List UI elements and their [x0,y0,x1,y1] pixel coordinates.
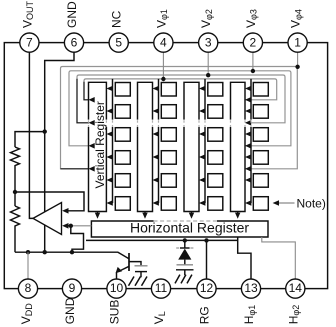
svg-text:Note): Note) [297,196,326,210]
node pin4/bus [161,77,165,81]
pin 10 [107,279,126,298]
svg-text:2: 2 [250,35,257,49]
wire pin6 (GND) down left rail [45,52,74,252]
pin 5 [109,33,128,52]
pin stub wires to buses (gray) with junction dots [163,52,297,79]
svg-text:3: 3 [205,35,212,49]
wire emitter to pin10 [116,273,118,279]
pin 4 [154,33,173,52]
wire diode cathode [184,240,186,248]
chip outline [4,43,327,289]
svg-text:Hφ2: Hφ2 [286,305,301,325]
node VDD on rail [26,250,30,254]
node GND on rail [43,250,47,254]
photosites column 3 [208,83,223,97]
wire pin13 (Hphi1) to HR [238,237,251,279]
wire column 2 clock [158,79,160,203]
wire pin1->bus [297,52,299,66]
node GND tap [43,129,47,133]
photosites column 2 [161,83,176,97]
svg-text:Vφ1: Vφ1 [154,9,169,28]
node pin12 top [204,238,208,242]
arrow note [273,200,279,206]
bus Vphi3 [69,71,291,146]
svg-text:VDD: VDD [19,303,34,325]
arrow bus->VR1 gap3 [89,143,95,149]
diode D1 cathode bar [180,247,190,249]
wire column 3 clock [204,79,206,203]
transistor Q1 emitter [121,266,130,270]
pin 3 [199,33,218,52]
pin 7 [20,33,39,52]
wire pin3->bus [207,52,209,75]
wire amp bottom input segment [68,225,71,227]
svg-text:9: 9 [69,281,76,295]
resistor R2 [11,206,20,230]
transistor Q1 base bar [128,253,130,271]
photosites column 4 [253,83,268,97]
svg-text:14: 14 [289,281,303,295]
svg-text:5: 5 [115,35,122,49]
wire resistor chain top tap [15,132,45,147]
op-amp U1 output amplifier [33,203,62,235]
wire pin2->bus [252,52,254,71]
bus Vphi1 [84,79,277,100]
svg-text:Vφ2: Vφ2 [199,9,214,28]
rail to substrate transistor [15,252,129,259]
node jog on rail [70,250,74,254]
svg-text:VL: VL [152,311,167,324]
diode D1 body [178,249,191,260]
arrow bus->VR1 gap2 [89,120,95,126]
continuation dashes (gray) in break band [89,120,252,126]
svg-text:10: 10 [110,281,124,295]
svg-text:6: 6 [71,35,78,49]
wire R1 to R2 [14,169,16,206]
vertical register VR2 [138,82,153,119]
node pin1/bus [295,65,299,69]
vertical register VR3 [184,82,199,119]
node pin3/bus [206,73,210,77]
svg-text:Horizontal Register: Horizontal Register [130,219,249,235]
bus arrowheads into VR1 (left) and VR4 (right) [89,97,252,172]
ground near RG [175,275,192,284]
arrow into amp bottom input [62,223,68,229]
pin 12 [197,279,216,298]
capacitor C1 plate (gray) [135,265,148,267]
pin 13 [241,279,260,298]
svg-text:VOUT: VOUT [20,0,35,28]
arrow bus->VR4 gap4 [245,166,251,172]
capacitor C1 plate (black) [135,271,147,273]
wire note pointer [276,202,295,204]
pin 8 [18,279,37,298]
wire Q1 collector [129,262,141,266]
black portions of bus hook wires (left side) [61,79,90,169]
wire pin14 (Hphi2) to HR (gray) [262,237,296,279]
capacitor C2 plate (black) [176,269,194,271]
arrowhead Q1 emitter [116,267,123,273]
arrow bus->VR4 gap1 [245,97,251,103]
rail lower right [86,239,238,241]
wire column 4 clock [250,79,252,203]
wire pin4->bus [162,52,164,79]
horizontal register box [91,221,268,237]
pin 9 [62,279,81,298]
pin 11 [151,279,170,298]
bus Vphi4 (outermost) [61,67,298,169]
svg-text:Vertical Register: Vertical Register [93,101,107,188]
svg-text:7: 7 [26,35,33,49]
ground near SUB [129,277,148,286]
wire C2 to ground [184,270,186,275]
wire R2 down to rail [14,230,16,252]
vertical register VR1 (labelled) [89,82,107,119]
svg-text:12: 12 [200,281,214,295]
svg-text:8: 8 [25,281,32,295]
arrow into amp top input [62,208,68,214]
svg-text:SUB: SUB [108,300,122,325]
resistor R1 [11,147,20,169]
register output arrows into horizontal register [95,212,241,219]
node pin2/bus [251,69,255,73]
node resistor chain / amp loop [13,190,17,194]
pin 6 [64,33,83,52]
wire amp bottom input jog to rail [71,226,84,252]
svg-text:11: 11 [155,281,168,295]
pin 2 [243,33,262,52]
arrow bus->VR4 gap2 [245,120,251,126]
svg-text:Hφ1: Hφ1 [242,305,257,325]
svg-text:GND: GND [63,297,77,324]
arrow bus->VR4 gap3 [245,143,251,149]
arrow bus->VR1 gap1 [89,97,95,103]
wire amp top input loop [15,192,84,211]
svg-text:4: 4 [160,35,167,49]
svg-text:13: 13 [244,281,258,295]
transfer arrows into registers (row centers) [106,86,251,206]
arrow bus->VR1 gap4 [89,166,95,172]
wire pin12 (RG) up to rail [206,240,208,279]
svg-text:GND: GND [65,1,79,28]
wire HR output to amp (gray) [71,225,92,227]
wire column 1 clock [112,79,114,203]
node diode top [183,238,187,242]
wire diode anode [184,260,186,265]
svg-text:Vφ3: Vφ3 [244,9,259,28]
wire pin7 (VOUT) down to amp output [29,52,33,218]
wire C1 to ground [140,272,142,278]
svg-text:1: 1 [294,35,301,49]
capacitor C2 plate (gray) [177,264,194,266]
pin 1 [288,33,307,52]
bus Vphi2 [77,75,285,123]
node amp input / HR output [69,224,73,228]
photosites column 1 [115,83,130,97]
wire pin8 (VDD) to rail (gray) [27,252,29,279]
svg-text:RG: RG [198,306,212,324]
pin 14 [286,279,305,298]
vertical register VR4 [231,82,246,119]
svg-text:Vφ4: Vφ4 [289,9,304,28]
svg-text:NC: NC [110,10,124,28]
